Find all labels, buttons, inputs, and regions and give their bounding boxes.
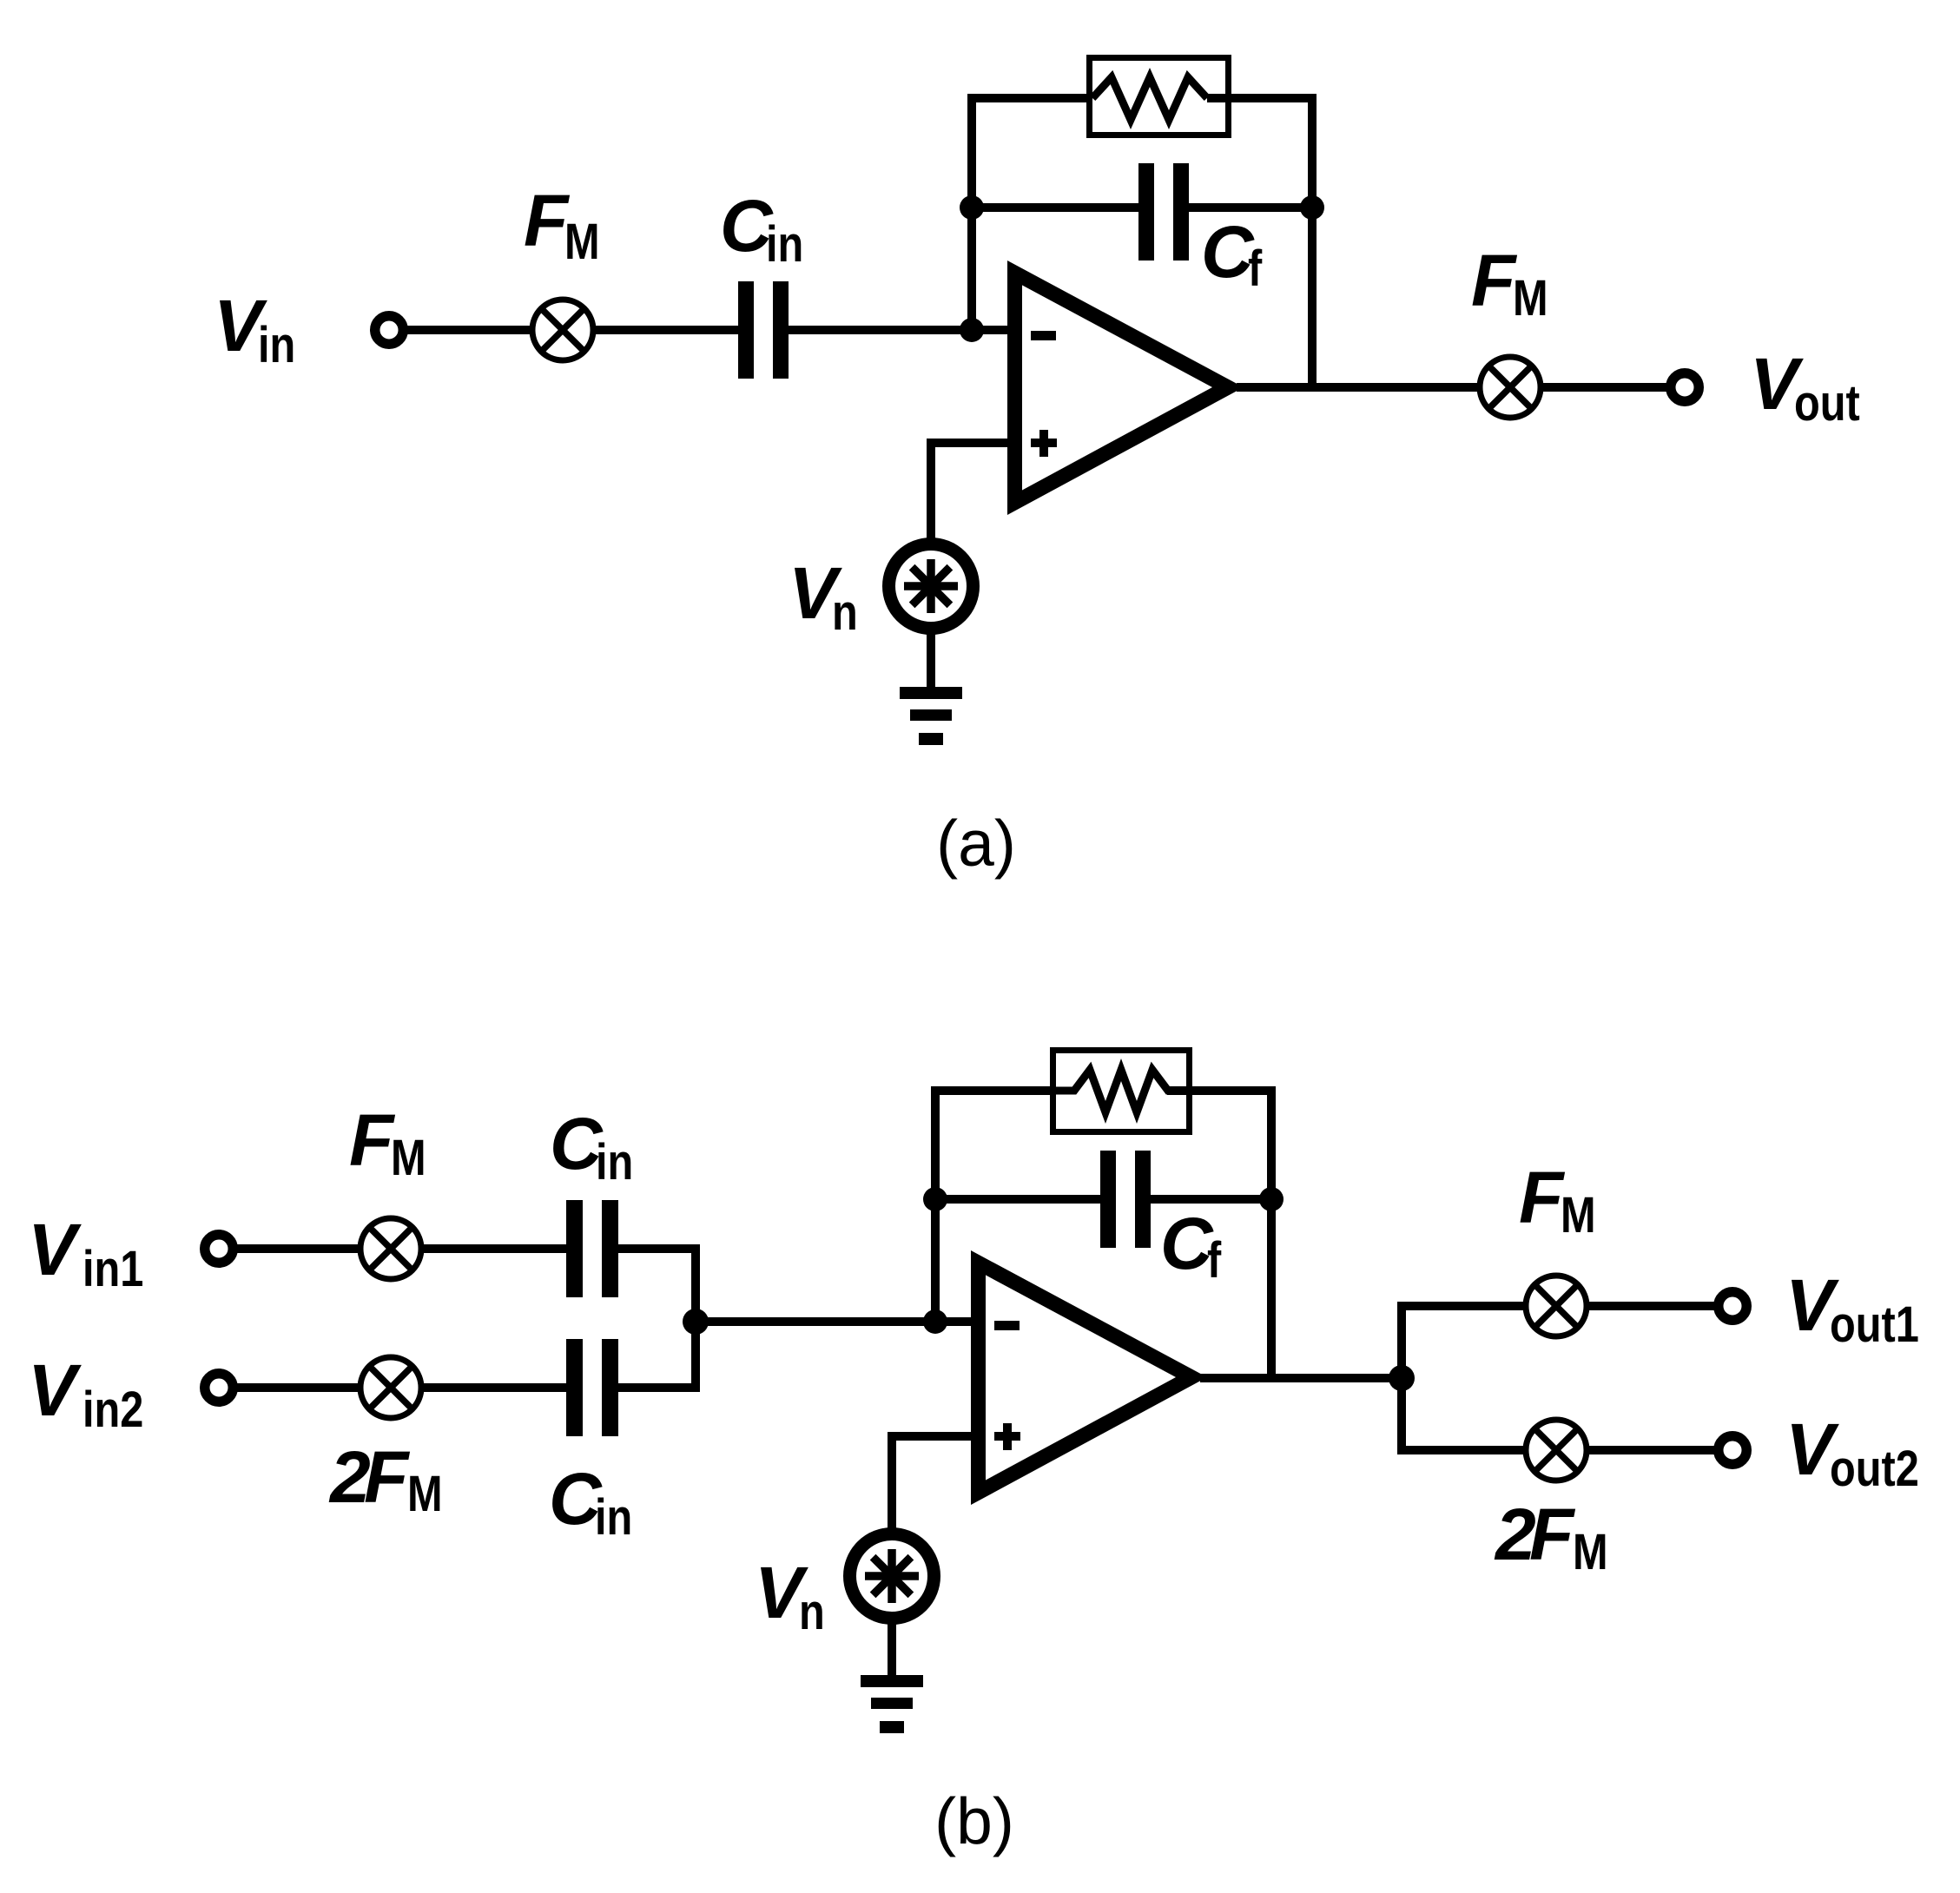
svg-text:M: M [1561,1188,1596,1243]
ground b [861,1675,923,1733]
op-amp plus sign b [994,1423,1020,1450]
label Vn b [755,1552,825,1640]
label Cin2 [549,1458,632,1546]
wire Cf left [972,203,1138,212]
wire Cin2 right [618,1322,696,1388]
wire chopper to Vout1 [1587,1302,1720,1310]
svg-text:in2: in2 [82,1382,143,1438]
wire Cf right b [1151,1195,1271,1204]
svg-text:n: n [832,585,858,641]
capacitor Cin1 [566,1200,618,1297]
wire Vin to chopper [404,326,535,334]
chopper FM input1 [360,1218,421,1279]
svg-text:F: F [524,180,571,261]
chopper FM input [532,300,593,360]
wire feedback top right [1207,94,1317,102]
terminal Vout2 [1719,1436,1747,1465]
wire feedback right vertical [1308,94,1317,392]
ground [900,687,962,745]
capacitor Cin2 [566,1339,618,1436]
svg-text:in: in [258,318,295,373]
wire feedback left vertical b [931,1091,940,1322]
svg-text:in: in [595,1490,632,1546]
node at Cf line left [960,195,984,220]
label Cin1 [550,1103,633,1191]
svg-text:in: in [766,217,803,273]
wire Cf right [1189,203,1312,212]
node output branch [1389,1365,1415,1391]
svg-text:n: n [799,1585,825,1640]
op-amp A2 [971,1250,1207,1505]
op-amp minus sign [1031,331,1056,340]
resistor Rf box b [1053,1051,1190,1132]
svg-text:out: out [1794,376,1860,432]
terminal Vin2 [205,1374,234,1402]
wire feedback top left b [931,1086,1077,1095]
svg-text:M: M [1573,1525,1608,1580]
label Vin1 [28,1209,143,1297]
label FM output [1471,240,1548,326]
svg-text:M: M [391,1131,426,1186]
wire chopper2 to Cin2 [421,1383,566,1392]
resistor Rf zigzag b [1053,1070,1191,1112]
resistor Rf zigzag [1092,77,1207,120]
svg-text:F: F [1529,1494,1576,1575]
wire Cf left b [935,1195,1100,1204]
label FM input [524,180,600,270]
svg-text:C: C [1160,1203,1214,1284]
svg-text:M: M [407,1467,443,1522]
terminal Vout [1671,373,1699,402]
svg-text:F: F [1471,240,1518,321]
svg-text:F: F [364,1436,411,1518]
label Vout2 [1785,1408,1919,1497]
wire Vin1 to chopper [234,1244,363,1253]
svg-text:out1: out1 [1830,1297,1919,1353]
svg-text:V: V [28,1349,82,1431]
chopper FM output [1480,357,1541,418]
wire branch1 to chopper [1397,1302,1528,1310]
node at Cf line right [1300,195,1324,220]
label Vout [1750,343,1860,432]
op-amp A1 [1007,261,1244,515]
chopper FM output1 [1526,1276,1587,1336]
node at minus input [960,318,984,342]
wire feedback top left [967,94,1096,102]
wire opamp output [1237,383,1482,392]
label Vin [214,285,295,373]
wire output branch vertical [1397,1306,1406,1450]
svg-text:F: F [349,1099,396,1181]
node at Cf line right b [1259,1187,1284,1211]
svg-text:(b): (b) [934,1784,1014,1857]
wire chopper to Vout [1541,383,1673,392]
svg-text:V: V [28,1209,82,1290]
wire plus input [931,443,1014,538]
node at minus input b [923,1309,947,1334]
label 2FM output2 [1494,1494,1608,1580]
wire feedback top right b [1167,1086,1276,1095]
label Vout1 [1785,1264,1919,1353]
label Vn [789,552,858,641]
label Cin [720,185,803,273]
label Vin2 [28,1349,143,1438]
wire Cin to opamp minus input [789,326,1014,334]
svg-text:f: f [1248,241,1262,297]
wire opamp output b [1200,1374,1406,1382]
op-amp plus sign [1031,430,1057,457]
wire branch2 to chopper [1397,1446,1528,1454]
terminal Vin1 [205,1235,234,1263]
wire chopper to Vout2 [1587,1446,1720,1454]
label FM output1 [1519,1157,1596,1243]
node join inputs [683,1309,709,1335]
noise source Vn [889,544,973,629]
wire plus input b [892,1436,978,1532]
svg-text:M: M [1513,271,1548,326]
capacitor Cf [1138,163,1189,261]
label Cf b [1160,1203,1221,1289]
chopper 2FM input2 [360,1357,421,1418]
wire feedback left vertical [967,98,976,330]
resistor Rf box [1090,58,1229,135]
op-amp minus sign b [994,1321,1020,1330]
noise source Vn b [850,1534,934,1619]
svg-text:out2: out2 [1830,1441,1919,1497]
svg-text:f: f [1207,1233,1221,1289]
wire Vn to ground b [888,1618,896,1678]
terminal Vout1 [1719,1292,1747,1321]
svg-text:(a): (a) [936,807,1016,880]
wire Vn to ground [927,628,935,689]
svg-text:in: in [596,1135,633,1191]
wire node to opamp minus [696,1317,978,1326]
terminal Vin [375,316,404,345]
wire chopper to Cin [593,326,738,334]
capacitor Cin [738,281,789,379]
svg-text:C: C [1201,211,1255,293]
wire chopper1 to Cin1 [421,1244,566,1253]
label FM input1 [349,1099,426,1186]
label 2FM input2 [328,1436,443,1522]
chopper 2FM output2 [1526,1420,1587,1481]
node at Cf line left b [923,1187,947,1211]
wire feedback right vertical b [1267,1086,1276,1382]
svg-text:in1: in1 [82,1242,143,1297]
svg-text:M: M [564,214,600,270]
svg-text:F: F [1519,1157,1566,1238]
wire Vin2 to chopper [234,1383,363,1392]
label Cf [1201,211,1262,297]
capacitor Cf b [1100,1151,1151,1248]
wire Cin1 right [618,1249,696,1322]
